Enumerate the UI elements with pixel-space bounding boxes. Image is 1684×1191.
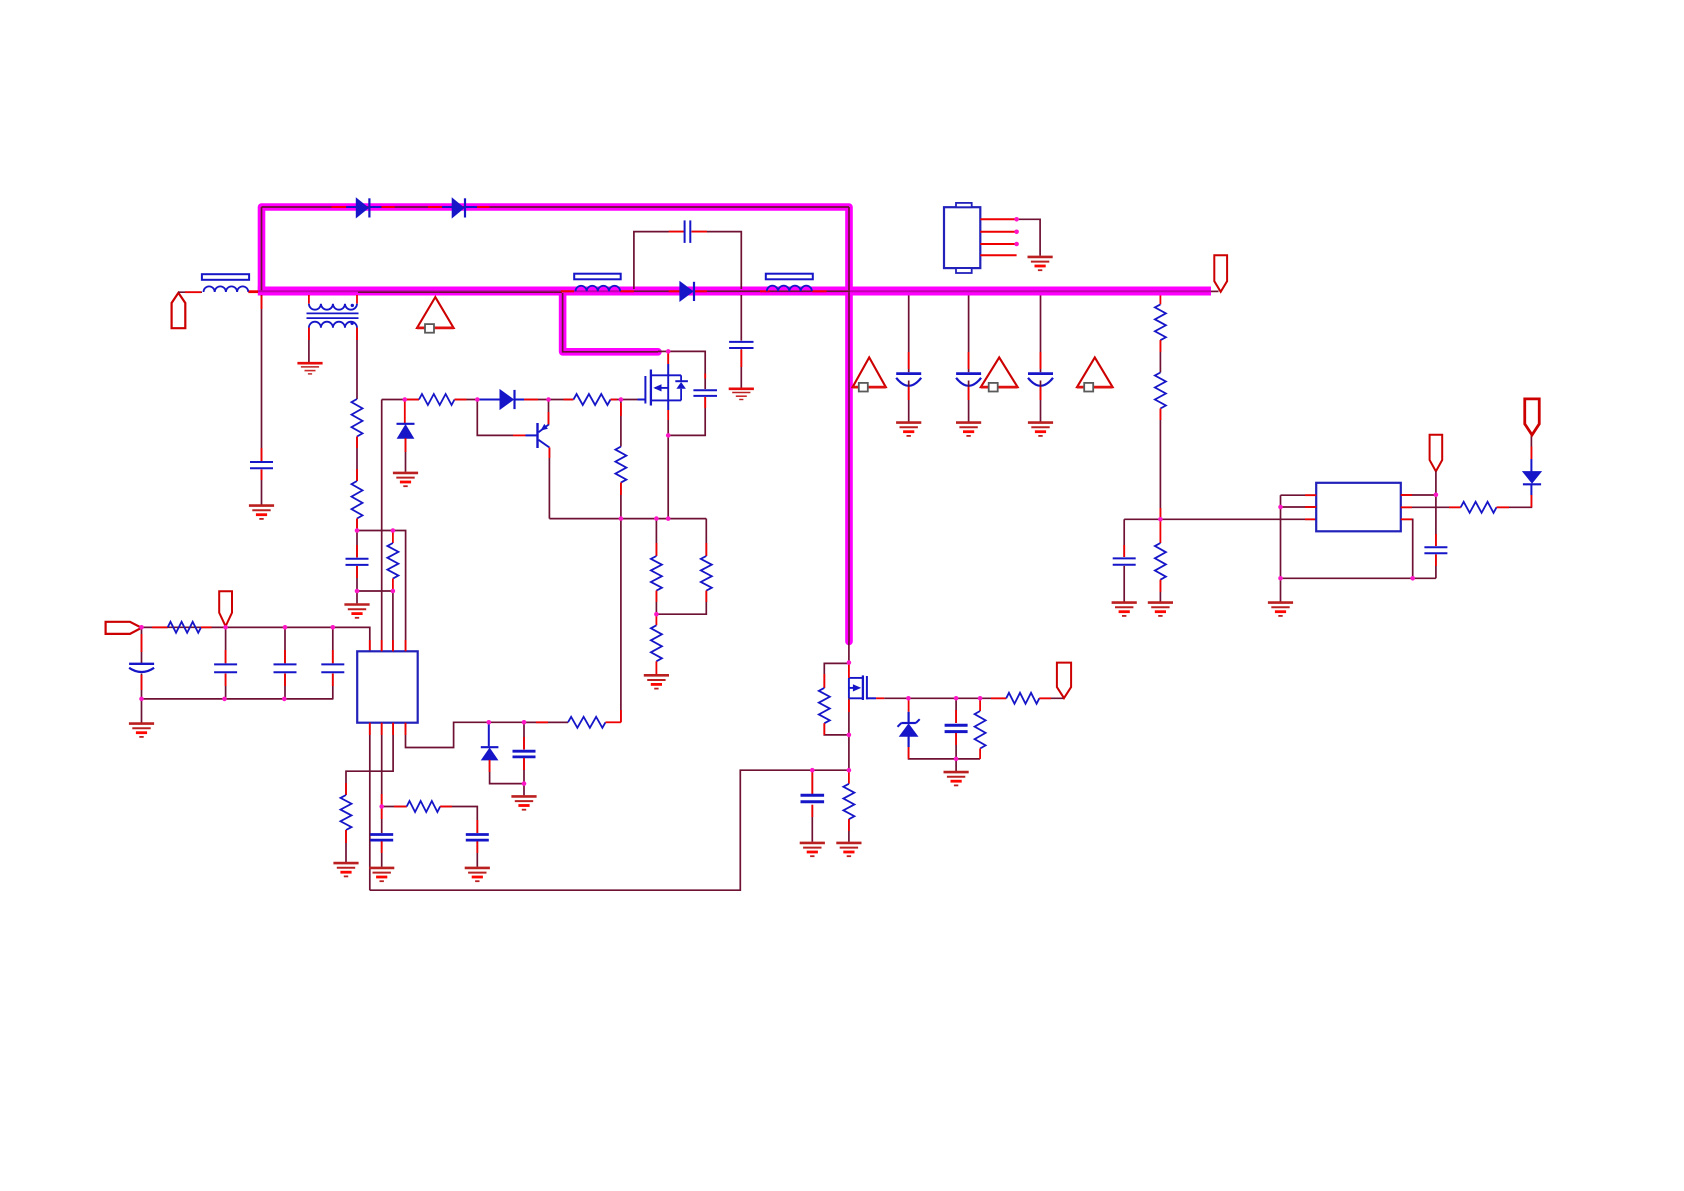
ground below U2 [1268,603,1293,616]
wire - D4 to node [524,399,548,401]
wire - C7 bottom to ground [523,784,525,796]
wire - IC pin to node B [381,723,383,807]
capacitor C1 [250,461,273,463]
K1 pin 3 [980,243,1016,245]
wire - R14 to R15 [1159,340,1161,372]
highlighted net - elbow to Q1 drain [563,293,658,352]
wire - Q2 drain lead [848,663,850,678]
ferrite bead FB3 coil [767,286,812,292]
ground below C14 [896,423,921,436]
wire - dark core of right vertical bus [848,207,850,642]
wire - bus down to capacitor C1 [261,295,263,461]
resistor R3 gate to rail [620,400,622,447]
component K1 block [944,203,980,273]
wire - CS row resistor R12 [524,721,568,723]
wire - dark core of left vertical bus [261,207,263,291]
wire - input rail to IC pin row [142,627,370,651]
regulator U2 box [1316,483,1401,532]
resistor R1 [419,394,455,405]
wire - C10 to ground [141,699,143,723]
zener diode D7 [488,722,490,746]
transformer T1 primary pins [308,295,310,304]
wire - R13 to rail [201,626,226,628]
ground below C8 [465,868,490,881]
ground at C5 bottom [356,591,358,603]
junction dots overlay [139,217,1438,809]
K1 pin 1 [980,218,1016,220]
wire - gate chain corner down to IC pin 2 top [381,400,383,652]
capacitor C18 [1435,495,1437,546]
capacitor C20 bold [955,698,957,723]
wire - top rail segment [226,626,370,628]
capacitor C13 [332,627,334,663]
wire - gate chain horizontal [382,399,419,401]
capacitor C19 bold on sense line [811,770,813,794]
ground below R6 [644,675,669,688]
polarized capacitor C16 [1028,372,1053,375]
wire - D8 anode to bottom link [909,736,981,759]
capacitor C8 bold [466,833,489,836]
ground below T1 [297,363,322,374]
wire - C16 to ground [1040,381,1042,422]
resistor R18 drain-gate loop [824,663,849,688]
wire - R15 down to node [1159,409,1161,520]
resistor R21 vertical [979,698,981,711]
wire - magenta bus end to Q2 drain node [848,642,850,663]
K1 pin 2 [980,231,1016,233]
wire - source node down to rail [667,435,669,518]
ground below C16 [1028,423,1053,436]
wire - R10 to ground [345,830,347,862]
ferrite bead FB1 bar [202,274,249,280]
wire - U2 left vertical to bottom rail [1280,495,1282,578]
polarized capacitor C10 input bulk [141,627,143,663]
wire - snubber loop right side [692,232,742,289]
capacitor C17 [1113,557,1136,559]
ferrite bead FB2 coil [576,286,621,292]
wire - bus down to capacitor C14 [908,296,910,373]
connector J3 flag pointing down [219,591,232,626]
connector J4 flag at main bus right end [1214,255,1227,292]
warning triangle W1 [417,297,454,333]
wire - bus down to capacitor C16 [1040,296,1042,373]
transformer T1 core lines [307,312,359,314]
transistor Q3 PNP [538,423,550,448]
wire - IC pin feedback down to long bottom rail [369,723,371,891]
wire - R9v node to IC pin 3 top [392,591,394,651]
polarized capacitor C14 [896,372,921,375]
wire - drain node to snubber cap C4 [668,351,705,389]
wire - source node to sense node [848,735,850,770]
ground below C3 [729,389,754,400]
connector J6 flag pointing down thick [1525,399,1540,435]
ground below R19 [836,843,861,856]
resistor R8v [352,481,363,518]
diode D5 pointing down [1530,485,1532,496]
ground below C17 [1112,603,1137,616]
ferrite bead FB2 bar [574,274,621,280]
resistor R5 [705,519,707,556]
wire - bottom rail to ground [1280,578,1282,601]
wire - R20 to connector J7 [1039,697,1064,699]
ground below C7 [511,796,536,809]
highlighted net - top bus with left and right verticals [262,207,850,642]
wire - horizontal rail y=518.6 [549,518,706,520]
wire - node rail to regulator pin 3 [1124,518,1316,520]
wire - dark core of top bus [262,206,850,208]
capacitor C7 bold [523,722,525,749]
capacitor C5 aux [356,531,358,558]
transformer T1 primary winding [309,304,357,310]
wire - IC pin down-left to R10 [346,723,393,795]
wire - ground stub [955,759,957,771]
capacitor C9 bold below node B [381,807,383,834]
wire - dark core of elbow [563,293,658,352]
wire - T1 secondary left pin to ground [308,328,310,363]
wire - R12 to long vertical [606,721,621,723]
resistor R15 [1155,373,1166,409]
wire - Q3 emitter up to node [548,400,550,425]
wire - R2 to Q1 gate [611,399,638,401]
ground below C20 [944,772,969,785]
wire - C5/R9v bottom link [357,590,393,592]
wire - Q1 source down [667,400,669,410]
resistor R19 source sense [848,770,850,784]
ferrite bead FB3 bar [766,274,813,280]
MOSFET Q1 [645,370,668,406]
wire - C14 to ground [908,381,910,422]
red lead dashes on main bus [249,290,259,292]
resistor R4 [655,519,657,556]
resistor R20 gate series [991,697,1006,699]
wire - bus down to capacitor C15 [968,296,970,373]
warning triangle W3 [981,357,1018,391]
resistor R13 [168,622,201,633]
wire - C8 to ground [476,841,478,866]
wire - C1 to ground [261,470,263,505]
connector J5 flag pointing down [1430,435,1443,472]
diode D1 on top bus [356,198,369,217]
ground below R10 [333,863,358,876]
wire - Q2 source down [848,698,850,735]
capacitor C12 [284,627,286,663]
resistor R16 below node [1159,519,1161,543]
wire - Q3 collector down [548,448,550,519]
wire - T1 secondary right pin down [356,328,358,399]
wire - C4 bottom to source node [668,397,705,435]
ground below C1 [249,506,274,519]
IC U1 box [357,651,418,722]
body diode of Q1 [668,375,688,400]
wire - R1 to node [455,399,478,401]
wire - C17 to ground [1123,566,1125,602]
wire - regulator bottom rail [1281,577,1436,579]
wire - U2 right pin 2 to R17 [1401,506,1461,508]
ground below C19 [800,843,825,856]
wire - C3 to ground [740,349,742,387]
wire - IC pin jog to CS row [406,722,569,747]
resistor R9v [392,531,394,544]
resistor R6 to ground [655,614,657,625]
wire - U2 left pin 1 [1281,494,1317,496]
wire - R8v to node [356,519,358,531]
diode D2 on top bus [452,198,465,217]
wire - D7 anode to C7 bottom node [490,760,524,784]
wire - FB1 to bus [248,291,258,293]
wire - U2 right pin 1 to J5 [1401,494,1436,496]
capacitor C4 across Q1 [693,389,717,391]
warning triangle W4 [1077,357,1113,391]
wire - U2 pin 3 right jog down [1401,519,1413,578]
wire - K1 pins to ground [1017,219,1041,256]
node - Q1 drain node [667,351,669,364]
wire - snubber loop left side [634,232,684,289]
capacitor C11 [225,627,227,663]
diode D4 [477,399,500,401]
ferrite bead FB1 coil [204,286,249,292]
wire - node to R2 [549,399,574,401]
resistor R2 [574,394,611,405]
K1 pin 4 [980,254,1016,256]
zener diode D8 [908,698,910,712]
resistor R14 [1155,304,1166,340]
wire - between R7v and R8v [356,437,358,482]
capacitor C3 [729,341,753,343]
red lead dashes on top bus [332,206,347,208]
ground below R16 [1148,603,1173,616]
blue lead stubs on top bus at diodes [346,206,356,208]
resistor R17 [1461,502,1497,513]
wire - long bottom rail [370,770,849,890]
highlighted net - main horizontal bus [258,287,1211,296]
transformer T1 secondary winding [309,322,357,328]
ground below D6 [393,473,418,486]
wire - bus to resistor R14 [1159,296,1161,305]
wire - R17 to D5 [1497,495,1532,507]
MOSFET Q2 mirrored [849,675,867,700]
zener diode D6 at node [404,400,406,424]
wire - D5 to connector J6 [1530,435,1532,459]
connector J1 input flag pointing up [172,293,186,328]
ground below C15 [956,423,981,436]
ground below C10 [129,724,154,737]
wire - U2 left pin 2 [1281,506,1317,508]
transformer T1 phase dot secondary [350,322,353,325]
wire - long vertical from rail to R7 row [620,519,622,723]
wire - dark core of main bus [258,290,1211,292]
wire - J1 to ferrite bead FB1 [178,291,202,293]
wire - bottom rail [142,698,334,700]
wire - aux node to IC pin 4 top [357,531,406,652]
wire - R11 to C8 [440,807,477,834]
wire - node down to Q3 base [477,400,513,436]
connector J7 flag pointing down [1057,663,1071,699]
ground below C9 [369,868,394,881]
wire - C15 to ground [968,381,970,422]
wire - magenta end node to Q1 drain [658,350,668,352]
wire - Q2 gate line [867,697,876,699]
warning triangle W2 [853,357,886,391]
resistor R11 from node B [382,806,407,808]
capacitor C2 snubber (vertical plates) [684,220,686,243]
connector J2 input flag pointing right [106,622,142,634]
wire - T1 aux chain: resistor R7v [352,399,363,436]
wire - J2 to R13 [142,626,168,628]
wire - D3 junction down to capacitor C3 [740,295,742,341]
polarized capacitor C15 [956,372,981,375]
diode D3 on main bus [680,282,694,301]
ground below K1 [1028,257,1053,270]
resistor R10 vertical [341,795,352,830]
wire - rail left corner to C17 [1123,519,1125,557]
transformer T1 phase dot primary [351,304,354,307]
